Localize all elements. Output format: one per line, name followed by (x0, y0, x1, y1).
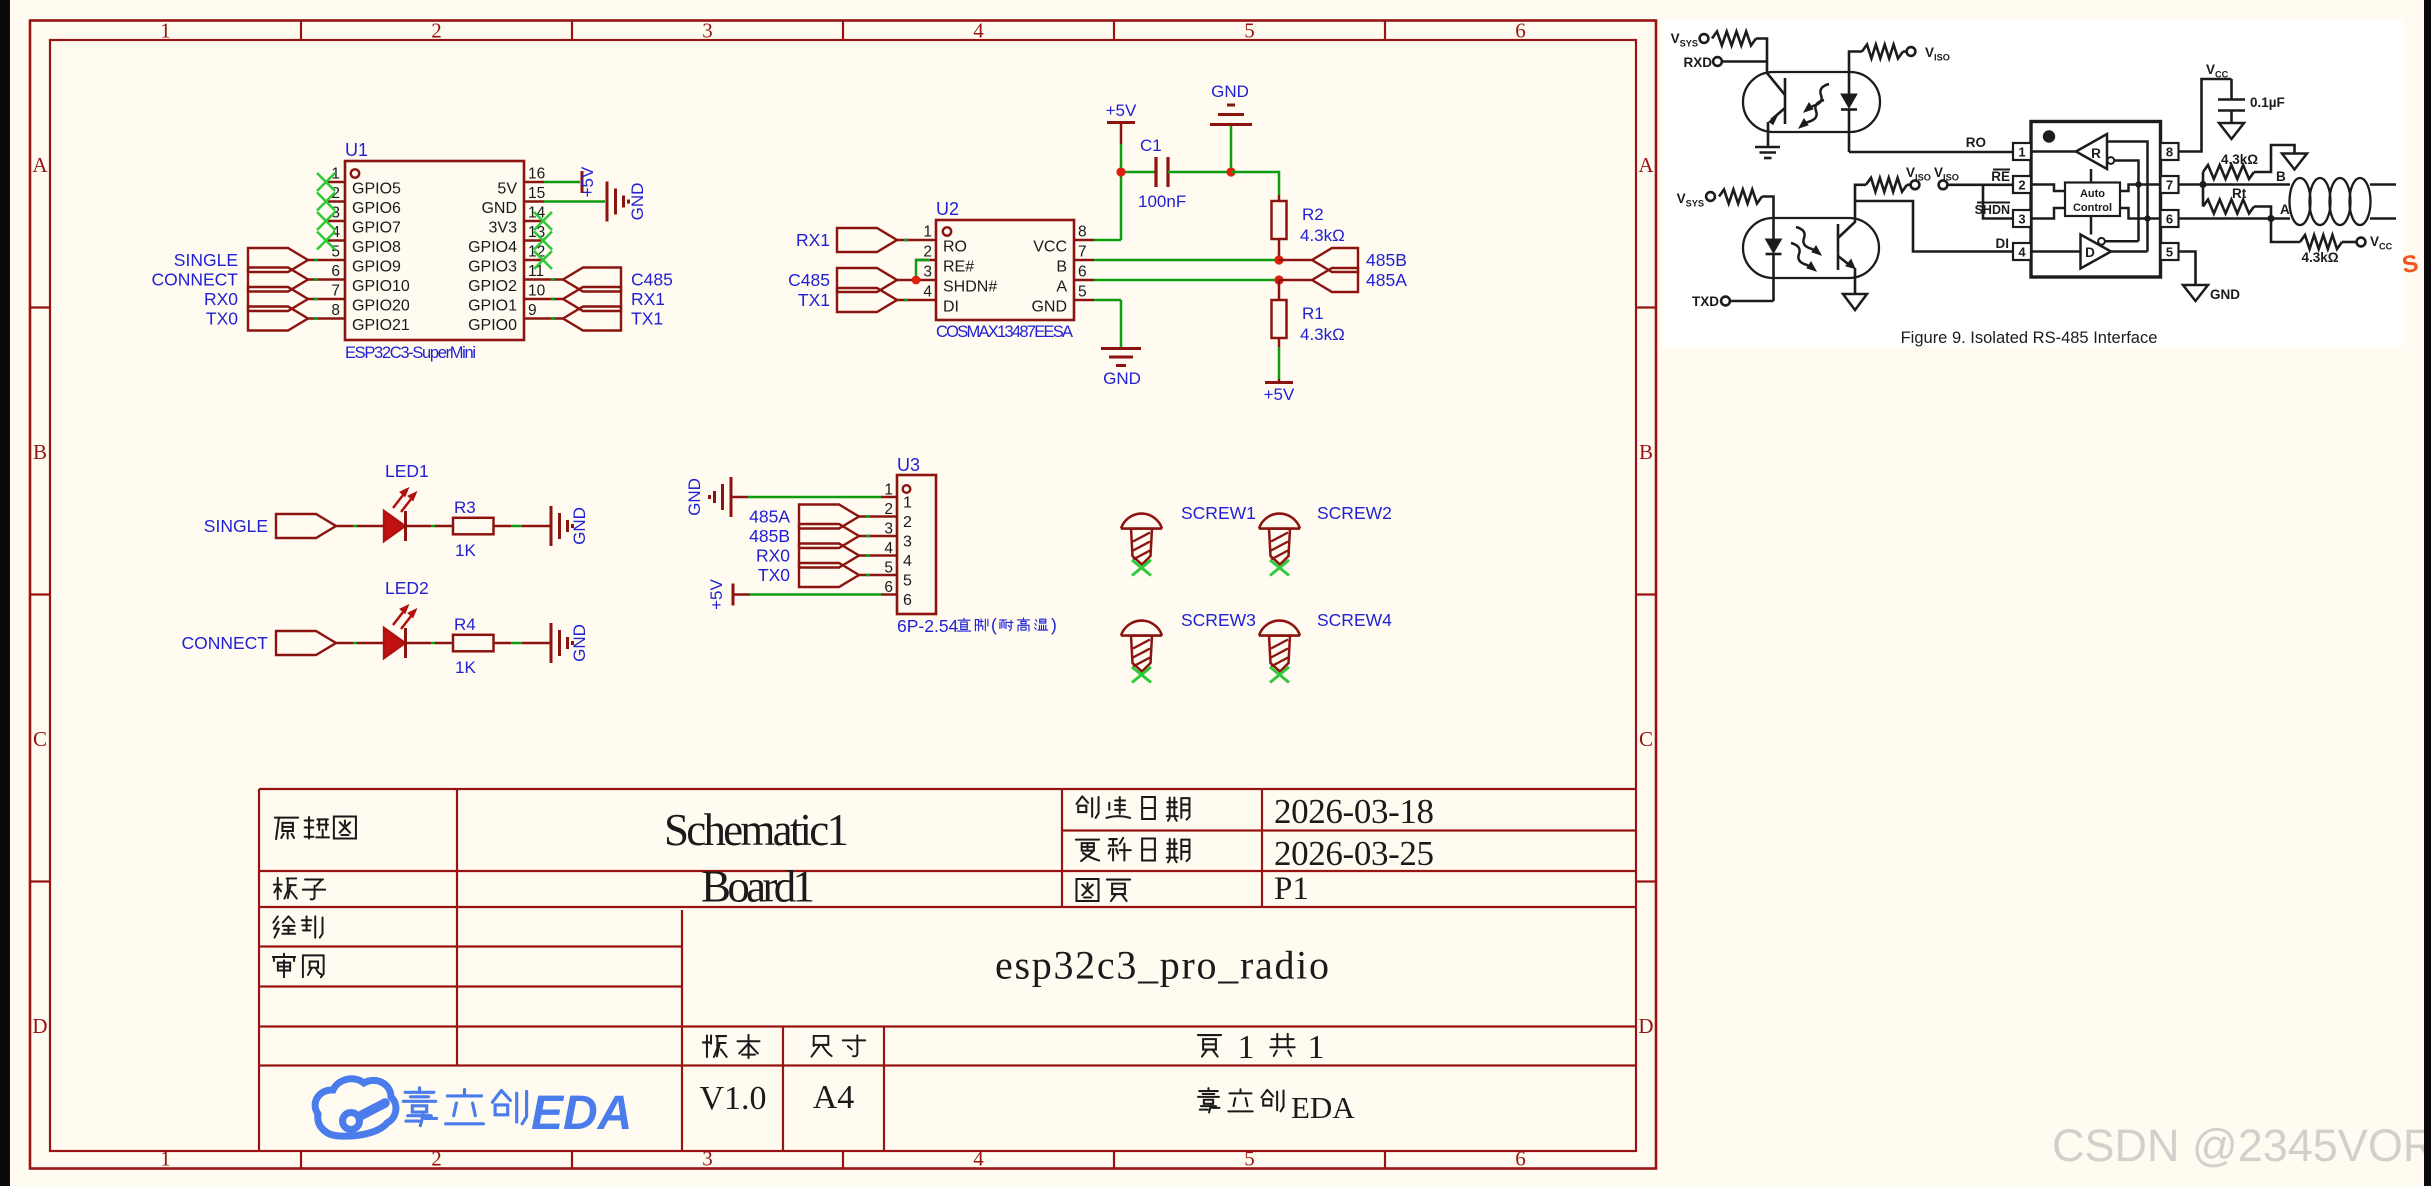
U3 pin 1 (881, 496, 897, 499)
svg-text:8: 8 (2166, 145, 2173, 160)
wire TX0 to U1 pin8 (308, 317, 325, 320)
U3 pin 4 (881, 554, 897, 557)
svg-text:SHDN: SHDN (1975, 203, 2010, 217)
wire junction to 485A port (1279, 279, 1312, 282)
svg-text:TXD: TXD (1692, 294, 1719, 309)
svg-text:GND: GND (570, 624, 589, 662)
svg-text:): ) (1051, 615, 1057, 635)
figure wire pin8 to VCC (2179, 79, 2232, 152)
net port C485 at U2 SHDN# (837, 268, 897, 292)
no-connect X U1 pin 2 (317, 193, 335, 211)
svg-text:9: 9 (528, 302, 537, 319)
figure IC pin box 1 (2013, 143, 2031, 160)
net port CONNECT at LED2 (276, 631, 336, 655)
svg-text:4: 4 (973, 19, 984, 43)
svg-text:5: 5 (903, 573, 912, 590)
figure ground triangle at pin5 (2183, 285, 2208, 301)
svg-text:A: A (1638, 153, 1654, 177)
figure IC body (2031, 122, 2161, 278)
svg-text:GND: GND (685, 478, 704, 516)
svg-text:6: 6 (903, 592, 912, 609)
title block grid (259, 789, 1636, 1151)
power +5V at U1 pin16 (581, 171, 584, 193)
figure net VISO terminal (lower right) (1939, 180, 1948, 189)
svg-text:4: 4 (2018, 245, 2026, 260)
figure ground triangle below cap (2219, 123, 2244, 139)
power +5V at U3 pin6 (732, 584, 735, 606)
svg-text:6: 6 (1515, 1147, 1526, 1171)
power +5V below R1 (1278, 379, 1281, 381)
svg-text:B: B (1639, 440, 1653, 464)
no-connect X U1 pin 4 (317, 232, 335, 250)
title page 1 of 1 (CJK + digits) (1198, 1035, 1221, 1056)
left black strip (0, 0, 10, 1186)
figure optocoupler U_a body (1743, 72, 1880, 132)
svg-text:GND: GND (481, 200, 517, 217)
component U3 body (897, 475, 936, 614)
svg-text:SINGLE: SINGLE (174, 250, 238, 270)
svg-text:U1: U1 (345, 140, 368, 160)
figure auto control box (2065, 183, 2120, 217)
svg-text:15: 15 (528, 185, 545, 202)
svg-text:A4: A4 (813, 1079, 855, 1116)
svg-text:2: 2 (431, 1147, 442, 1171)
net port 485A (1312, 268, 1358, 292)
svg-text:RX0: RX0 (204, 289, 238, 309)
net port 485A at U3 pin2 (799, 505, 859, 529)
figure IC pin box 7 (2161, 176, 2179, 193)
svg-text:100nF: 100nF (1138, 192, 1186, 211)
svg-text:A: A (32, 153, 48, 177)
JLCEDA logo cloud icon (315, 1079, 396, 1136)
figure resistor from VSYS (lower) (1719, 190, 1762, 204)
svg-text:Control: Control (2073, 202, 2112, 214)
svg-text:ESP32C3-SuperMini: ESP32C3-SuperMini (345, 344, 476, 362)
net port TX1 at U2 DI (837, 288, 897, 312)
svg-text:16: 16 (528, 166, 545, 183)
svg-text:esp32c3_pro_radio: esp32c3_pro_radio (995, 943, 1329, 988)
figure ground at opto U_a emitter (1755, 146, 1780, 149)
U2 pin 1 RO (916, 239, 936, 242)
ground GND at U3 pin1 (730, 477, 733, 517)
svg-text:6: 6 (1515, 19, 1526, 43)
U3 pin-1 indicator circle (903, 485, 911, 493)
figure IC pin box 2 (2013, 176, 2031, 193)
no-connect X U1 pin 3 (317, 212, 335, 230)
svg-text:C: C (33, 727, 47, 751)
svg-text:D: D (2085, 245, 2095, 260)
svg-text:4.3kΩ: 4.3kΩ (1300, 226, 1345, 245)
figure wire RXD to collector node (1722, 60, 1767, 63)
junction RE#/SHDN# (912, 276, 921, 285)
svg-text:DI: DI (1996, 236, 2010, 251)
wire CONNECT to LED2 anode (336, 642, 353, 645)
svg-text:4: 4 (903, 553, 912, 570)
U1 pin 10 GPIO1 (524, 298, 544, 301)
right black strip (2424, 0, 2431, 1186)
ground GND below U2 (1101, 347, 1141, 350)
svg-text:2: 2 (431, 19, 442, 43)
screw SCREW3 (1121, 621, 1162, 636)
svg-text:+5V: +5V (578, 166, 597, 197)
figure resistor to VISO (lower) (1855, 185, 1866, 201)
svg-text:+5V: +5V (1264, 385, 1295, 404)
wire CONNECT to U1 pin6 (308, 278, 325, 281)
svg-text:5: 5 (1244, 19, 1255, 43)
no-connect X U1 pin 14 (534, 212, 552, 230)
figure capacitor 0.1uF (2230, 79, 2233, 99)
title label size (CJK) (811, 1035, 865, 1056)
svg-text:Auto: Auto (2080, 188, 2105, 200)
svg-text:GPIO9: GPIO9 (352, 259, 401, 276)
figure IC pin-1 dot (2043, 130, 2055, 142)
svg-text:B: B (1056, 259, 1067, 276)
svg-text:GPIO0: GPIO0 (468, 317, 517, 334)
wire R3 to GND (494, 525, 512, 528)
screw SCREW1 (1121, 514, 1162, 529)
wire C1 node to R2 top (1231, 172, 1279, 195)
svg-text:3: 3 (923, 264, 932, 281)
U1 pin 3 GPIO7 (325, 220, 345, 223)
title label reviewed-by (CJK) (273, 954, 324, 978)
svg-text:+5V: +5V (707, 578, 726, 609)
svg-text:GPIO1: GPIO1 (468, 298, 517, 315)
figure resistor 4.3k pullup B (2202, 172, 2205, 185)
figure twisted pair (2290, 178, 2311, 225)
svg-text:3: 3 (903, 534, 912, 551)
svg-text:1: 1 (160, 19, 171, 43)
svg-text:+5V: +5V (1106, 101, 1137, 120)
svg-text:SCREW2: SCREW2 (1317, 503, 1392, 523)
figure wire VSYS to collector node (1756, 39, 1767, 62)
svg-text:2026-03-25: 2026-03-25 (1274, 834, 1434, 873)
figure net VISO terminal (lower left) (1911, 180, 1920, 189)
junction VCC rail at C1 (1116, 167, 1125, 176)
svg-text:SINGLE: SINGLE (204, 516, 268, 536)
screw SCREW4 (1259, 621, 1300, 636)
no-connect X U1 pin 1 (317, 173, 335, 191)
diode LED1 (384, 511, 405, 541)
diode LED2 (384, 628, 405, 658)
svg-text:6: 6 (884, 579, 893, 596)
svg-text:R: R (2091, 146, 2101, 161)
figure opto U_a light arrows (1808, 84, 1829, 109)
component U2 body (936, 220, 1074, 320)
svg-text:1: 1 (884, 482, 893, 499)
wire U2 RE# to SHDN# net (916, 260, 930, 280)
svg-text:DI: DI (943, 299, 959, 316)
figure IC pin box 5 (2161, 243, 2179, 260)
svg-text:3: 3 (884, 521, 893, 538)
wire +5V to U3 pin6 (733, 593, 750, 596)
svg-text:1: 1 (2018, 145, 2025, 160)
net port C485 at U1 GPIO2 (544, 278, 563, 281)
svg-text:7: 7 (331, 283, 340, 300)
figure wire pin5 to GND (2179, 252, 2196, 286)
svg-text:P1: P1 (1274, 871, 1309, 907)
svg-text:3V3: 3V3 (489, 220, 518, 237)
frame row dividers (30, 306, 50, 308)
figure net TXD terminal (1730, 300, 1774, 303)
svg-text:R2: R2 (1302, 205, 1324, 224)
wire LED1 cathode to R3 (406, 525, 432, 528)
svg-text:CSDN @2345VOR: CSDN @2345VOR (2052, 1120, 2431, 1171)
svg-text:D: D (1638, 1014, 1653, 1038)
svg-text:RE#: RE# (943, 259, 974, 276)
U3 pin 5 (881, 574, 897, 577)
JLCEDA logo text (CJK bold) (403, 1088, 526, 1126)
svg-text:GPIO10: GPIO10 (352, 278, 410, 295)
U1 pin 16 5V (524, 181, 544, 184)
svg-text:U2: U2 (936, 199, 959, 219)
svg-text:5V: 5V (497, 181, 517, 198)
no-connect X U1 pin 13 (534, 232, 552, 250)
wire RX0 to U3 pin4 (859, 554, 881, 557)
figure white panel (1661, 20, 2403, 347)
svg-text:A: A (1056, 279, 1067, 296)
wire RX0 to U1 pin7 (308, 298, 325, 301)
svg-text:TX1: TX1 (631, 309, 663, 329)
net port RX1 at U1 GPIO1 (544, 298, 563, 301)
svg-text:1: 1 (903, 495, 912, 512)
figure resistor from VSYS (upper) (1712, 32, 1756, 46)
frame inner border (50, 40, 1636, 1151)
title label updated-date (CJK) (1076, 838, 1190, 862)
svg-text:RX0: RX0 (756, 546, 790, 566)
svg-text:C1: C1 (1140, 136, 1162, 155)
svg-text:4.3kΩ: 4.3kΩ (2221, 152, 2258, 167)
svg-text:1: 1 (1308, 1029, 1325, 1066)
svg-text:2: 2 (903, 514, 912, 531)
svg-text:RO: RO (1966, 135, 1986, 150)
figure opto U_b phototransistor (1837, 224, 1840, 270)
svg-text:LED2: LED2 (385, 578, 429, 598)
ground GND at LED2 (550, 623, 553, 663)
svg-text:8: 8 (331, 302, 340, 319)
wire SINGLE to U1 pin5 (308, 259, 325, 262)
wire junction to 485B port (1279, 259, 1312, 262)
svg-text:5: 5 (1078, 284, 1087, 301)
wire SINGLE to LED1 anode (336, 525, 353, 528)
figure optocoupler U_b body (1743, 218, 1879, 278)
svg-text:2: 2 (2018, 178, 2025, 193)
wire 485A to U3 pin2 (859, 515, 881, 518)
wire U2 B pin7 to 485B (1094, 259, 1277, 262)
svg-text:1: 1 (1238, 1029, 1255, 1066)
figure receiver triangle R (2076, 134, 2107, 169)
figure resistor to VISO (upper) (1849, 52, 1862, 73)
figure resistor Rt (2202, 185, 2205, 207)
svg-text:LED1: LED1 (385, 461, 429, 481)
U1 pin 12 GPIO3 (524, 259, 544, 262)
figure ground triangle at B pullup (2282, 154, 2307, 170)
svg-text:3: 3 (702, 19, 713, 43)
figure wire VSYS to LED anode (lower) (1762, 197, 1774, 219)
figure junction pin7 (2199, 181, 2206, 188)
svg-text:1K: 1K (455, 658, 476, 677)
svg-text:TX0: TX0 (758, 565, 790, 585)
power +5V above U2 (1107, 121, 1135, 124)
U2 pin 8 VCC (1074, 239, 1094, 242)
net port SINGLE at LED1 (276, 514, 336, 538)
wire 485B to U3 pin3 (859, 535, 881, 538)
junction 485B (1274, 255, 1283, 264)
svg-text:4.3kΩ: 4.3kΩ (2301, 250, 2338, 265)
figure junction A line (2267, 215, 2274, 222)
svg-text:GND: GND (2210, 287, 2240, 302)
figure IC pin box 4 (2013, 243, 2031, 260)
U1 pin 8 GPIO21 (325, 317, 345, 320)
title label board (CJK) (274, 878, 325, 900)
svg-text:CONNECT: CONNECT (151, 270, 238, 290)
svg-text:1: 1 (923, 224, 932, 241)
svg-text:TX1: TX1 (798, 290, 830, 310)
svg-text:GPIO21: GPIO21 (352, 317, 410, 334)
U2 pin 7 B (1074, 259, 1094, 262)
svg-text:C485: C485 (788, 270, 830, 290)
U1 pin 14 3V3 (524, 220, 544, 223)
U2 pin-1 indicator circle (943, 227, 951, 235)
U1 pin 15 GND (524, 200, 544, 203)
svg-text:SCREW3: SCREW3 (1181, 610, 1256, 630)
svg-text:2: 2 (884, 501, 893, 518)
wire R4 to GND (494, 642, 512, 645)
figure net VISO terminal (upper) (1907, 47, 1916, 56)
U1 pin 5 GPIO9 (325, 259, 345, 262)
svg-text:2026-03-18: 2026-03-18 (1274, 792, 1434, 831)
svg-text:TX0: TX0 (206, 309, 238, 329)
svg-text:485B: 485B (749, 526, 790, 546)
figure IC pin box 6 (2161, 210, 2179, 227)
net port RX1 at U2 RO (837, 228, 897, 252)
U1 pin 4 GPIO8 (325, 239, 345, 242)
svg-text:6P-2.54: 6P-2.54 (897, 616, 959, 636)
svg-text:6: 6 (331, 263, 340, 280)
figure wire RO line (1849, 151, 2013, 154)
svg-text:GPIO7: GPIO7 (352, 220, 401, 237)
svg-text:R4: R4 (454, 615, 476, 634)
U1 pin 2 GPIO6 (325, 200, 345, 203)
svg-text:EDA: EDA (1291, 1090, 1355, 1125)
U2 pin 2 RE# (916, 259, 936, 262)
LED2 emission arrows (393, 607, 407, 625)
net port SINGLE at U1 GPIO9 (248, 248, 308, 272)
ground GND above C1 (inverted) (1230, 126, 1233, 168)
wire U1 pin16 to +5V (544, 181, 580, 184)
figure ground triangle at opto U_b emitter (1843, 294, 1867, 310)
frame column dividers (300, 21, 302, 41)
svg-text:V1.0: V1.0 (699, 1080, 766, 1117)
figure IC internal junction dots (2135, 181, 2141, 187)
net port TX0 at U3 pin5 (799, 563, 859, 587)
svg-text:GND: GND (1031, 299, 1067, 316)
svg-text:Schematic1: Schematic1 (664, 805, 849, 855)
svg-text:GPIO2: GPIO2 (468, 278, 517, 295)
svg-text:C: C (1639, 727, 1653, 751)
junction C1 right / GND tap (1226, 167, 1235, 176)
title label sheet-page (CJK) (1076, 879, 1130, 901)
svg-text:GPIO8: GPIO8 (352, 239, 401, 256)
svg-text:6: 6 (1078, 264, 1087, 281)
figure wire VISO to RE pin (1948, 184, 2014, 187)
resistor R3 (453, 518, 494, 535)
svg-text:10: 10 (528, 283, 546, 300)
wire U2 VCC pin8 to +5V rail (1094, 239, 1121, 242)
svg-text:RO: RO (943, 239, 967, 256)
svg-text:R3: R3 (454, 498, 476, 517)
figure IC pin box 8 (2161, 143, 2179, 160)
U2 pin 5 GND (1074, 299, 1094, 302)
svg-text:GPIO20: GPIO20 (352, 298, 410, 315)
title label version (CJK) (703, 1035, 760, 1058)
svg-text:6: 6 (2166, 212, 2173, 227)
figure opto U_b LED (1772, 218, 1775, 239)
wire C485 to U2 pin3 (897, 279, 916, 282)
svg-text:4: 4 (884, 540, 893, 557)
figure IC internal wires (2031, 150, 2076, 153)
wire GND to U3 pin1 (731, 496, 748, 499)
svg-text:3: 3 (2018, 212, 2025, 227)
U3 pin 6 (881, 593, 897, 596)
figure wire pin7 B line (2179, 183, 2291, 186)
U3 pin 3 (881, 535, 897, 538)
net port TX1 at U1 GPIO0 (544, 317, 563, 320)
svg-text:(: ( (991, 615, 997, 635)
svg-text:GND: GND (628, 183, 647, 221)
U2 pin 4 DI (916, 299, 936, 302)
resistor R2 (1278, 195, 1281, 201)
svg-text:GPIO4: GPIO4 (468, 239, 517, 256)
svg-text:4: 4 (973, 1147, 984, 1171)
wire U1 pin15 to GND (544, 200, 605, 203)
figure resistor 4.3k to VCC (lower) (2271, 219, 2300, 243)
svg-text:GND: GND (1211, 82, 1249, 101)
svg-text:485B: 485B (1366, 250, 1407, 270)
U1 pin 13 GPIO4 (524, 239, 544, 242)
figure driver triangle D (2081, 235, 2112, 269)
title label sheet-name (CJK) (275, 816, 356, 839)
svg-text:C485: C485 (631, 270, 673, 290)
svg-text:5: 5 (2166, 245, 2173, 260)
screw SCREW2 (1259, 514, 1300, 529)
U1 pin 11 GPIO2 (524, 278, 544, 281)
svg-text:EDA: EDA (531, 1087, 632, 1140)
U2 pin 3 SHDN# (916, 279, 936, 282)
svg-text:RX1: RX1 (796, 230, 830, 250)
figure opto U_b light arrows (1796, 227, 1817, 252)
figure wire pin6 A line (2179, 217, 2291, 220)
resistor R1 (1278, 280, 1281, 300)
wire RX1 to U2 pin1 (897, 239, 916, 242)
svg-text:SCREW1: SCREW1 (1181, 503, 1256, 523)
svg-text:B: B (2276, 169, 2286, 184)
svg-text:4: 4 (923, 284, 932, 301)
svg-text:GPIO5: GPIO5 (352, 181, 401, 198)
svg-text:RX1: RX1 (631, 289, 665, 309)
figure wire RE to SHDN branch (1983, 185, 2013, 219)
net port RX0 at U1 GPIO20 (248, 287, 308, 311)
net port CONNECT at U1 GPIO10 (248, 268, 308, 292)
U1 pin 7 GPIO20 (325, 298, 345, 301)
svg-text:RXD: RXD (1683, 55, 1712, 70)
svg-text:7: 7 (1078, 244, 1087, 261)
U1 pin 9 GPIO0 (524, 317, 544, 320)
net port 485B (1312, 248, 1358, 272)
net port 485B at U3 pin3 (799, 524, 859, 548)
svg-text:VCC: VCC (1033, 239, 1067, 256)
wire R1 bottom to +5V (1278, 347, 1281, 379)
svg-text:CONNECT: CONNECT (181, 633, 268, 653)
